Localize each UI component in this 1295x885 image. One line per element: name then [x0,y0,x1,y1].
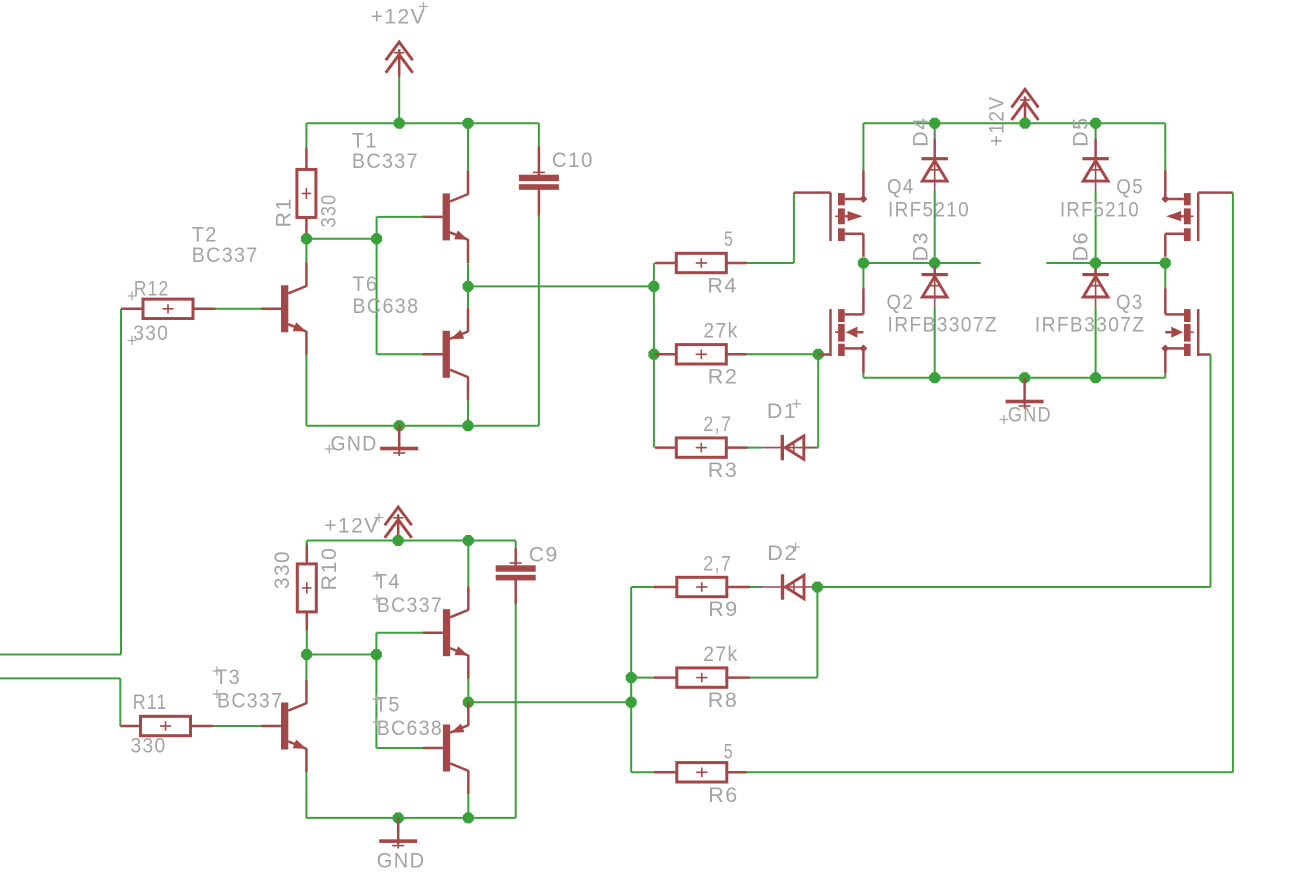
text origin cross [128,336,137,345]
wire D3 column bottom [934,308,936,378]
wire D4 column bottom [934,191,936,264]
pin R1 bottom [305,217,308,238]
transistor T5 [423,702,468,794]
wire T5 base [376,747,424,749]
text origin cross [373,595,382,604]
svg-text:R2: R2 [708,365,738,389]
pin R10 bottom [306,612,309,631]
diode D6 [1082,273,1108,307]
wire R6 left [631,771,654,773]
wire T2 collector green [305,239,307,263]
text origin cross [373,718,382,727]
transistor T1 [423,171,468,263]
wire D6 column bottom [1095,308,1097,378]
svg-text:BC638: BC638 [377,716,443,740]
wire right column top [1164,123,1166,171]
node base dot right [371,649,382,660]
supply +12V bottom [385,507,412,542]
svg-text:GND: GND [331,431,378,455]
mosfet Q4 [818,171,867,257]
wire R4 up to Q4 gate [793,193,795,263]
svg-text:Q4: Q4 [887,175,915,199]
node R2 dot [648,349,659,360]
wire T5 collector [467,794,469,818]
node bank input dot [626,697,637,708]
node mid-right dot [1160,258,1171,269]
wire input upper vertical [120,309,122,655]
node base dot left [301,233,312,244]
svg-text:+12V: +12V [984,96,1008,147]
resistor R3 [676,438,726,457]
wire Q5 gate down [1232,193,1234,773]
wire Q5 gate red [1211,191,1233,194]
node bottom dot gnd [394,420,405,431]
resistor R12 [143,299,193,318]
wire +12V stem [398,76,400,123]
diode D5 [1082,157,1108,191]
wire Q3 gate down [1210,355,1212,588]
pin C10 top [538,147,541,175]
svg-text:IRF5210: IRF5210 [888,197,970,221]
node base dot right [371,233,382,244]
wire D5 column bottom [1095,191,1097,264]
text origin cross [375,513,384,522]
node rail dot T4 [463,535,474,546]
node output dot [463,697,474,708]
wire D3 column top [934,263,936,267]
node rail dot T1 [463,118,474,129]
text origin cross [373,572,382,581]
svg-text:T6: T6 [352,272,378,296]
wire gate dot down to D1 [817,354,819,447]
wire input lower [0,677,120,679]
pin R8 left [654,676,677,679]
wire R4 right [747,262,794,264]
wire C10 column top [538,123,540,147]
svg-text:D1: D1 [767,399,797,423]
svg-text:R11: R11 [133,690,168,714]
capacitor C9 [496,558,536,580]
pin R4 left [655,262,676,265]
pin R4 right [726,262,747,265]
svg-text:C9: C9 [529,542,559,566]
node input dot [648,281,659,292]
svg-text:T4: T4 [375,570,401,594]
text origin cross [792,399,801,408]
transistor T3 [261,680,306,772]
wire D2 down to R8 [816,587,818,678]
wire T1 base [377,216,424,218]
pin D5 top [1094,139,1097,157]
ground GND top block [380,425,418,456]
wire Q3 source to bottom rail [1164,373,1166,378]
wire mid-right rail [1046,262,1165,264]
node R8 dot [626,672,637,683]
mosfet Q3 [1161,288,1210,373]
node top dot D4 [929,118,940,129]
pin R10 top [306,543,309,564]
wire R8 left [631,677,654,679]
pin D4 top [933,139,936,157]
wire T4 base [376,632,424,634]
node base dot left [301,649,312,660]
wire R10 to node [306,630,308,654]
pin R11 left [120,725,140,728]
wire T6 base [377,353,424,355]
node Q2 gate dot [813,349,824,360]
wire D1 to vertical [804,447,818,449]
svg-text:BC337: BC337 [217,689,283,713]
wire gate red Q4 [794,191,819,194]
node mid-right dot D6 [1090,258,1101,269]
svg-text:D2: D2 [767,541,797,565]
text origin cross [325,445,334,454]
resistor R11 [141,716,191,735]
mosfet Q2 [818,288,867,373]
text origin cross [419,2,428,11]
svg-text:2,7: 2,7 [703,412,732,436]
node bottom dot GND [1019,372,1030,383]
svg-text:BC638: BC638 [352,294,419,318]
wire left column upper [305,123,307,148]
wire Q3 drain [1164,263,1166,288]
diode D4 [922,157,948,191]
text origin cross [791,543,800,552]
node rail dot +12V [394,118,405,129]
node mid-left dot [858,258,869,269]
resistor R6 [677,763,727,782]
pin R12 right [193,308,216,311]
wire D4 column top [934,123,936,140]
pin C10 bottom [538,190,541,216]
wire T1 collector [467,123,469,171]
svg-text:IRFB3307Z: IRFB3307Z [888,313,999,337]
wire bridge top rail [863,122,1165,124]
diode D1 [763,435,818,460]
pin R9 right [727,586,750,589]
overlap dots D3 [934,265,936,272]
wire T6 emitter [467,286,469,308]
node bottom dot GND [393,812,404,823]
node rail dot +12V [393,535,404,546]
wire left column top [862,123,864,171]
pin R1 top [305,148,308,170]
pin C9 top [514,549,517,567]
wire R6 right [747,771,1233,773]
transistor T4 [423,587,468,679]
svg-text:R9: R9 [708,597,738,621]
wire R3 to D1 [748,447,762,449]
svg-text:R4: R4 [707,273,737,297]
wire R9 to D2 [750,586,763,588]
wire D6 column top [1095,263,1097,267]
overlap dots D1 [757,447,780,449]
wire base column [376,217,378,354]
svg-text:Q3: Q3 [1116,290,1144,314]
svg-text:R8: R8 [708,688,738,712]
pin R11 right [191,725,214,728]
wire Q2 drain [862,263,864,288]
wire C9 column bottom [515,605,517,818]
text origin cross [213,690,222,699]
wire bottom rail [306,817,515,819]
wire base column [375,633,377,748]
wire R11 to T3 [213,725,261,727]
node output dot [463,281,474,292]
svg-text:GND: GND [1008,403,1052,427]
pin R9 left [654,586,677,589]
svg-text:5: 5 [724,740,734,764]
svg-text:R12: R12 [134,277,170,301]
wire output to bank [468,701,631,703]
diode D2 [763,574,818,599]
node top dot +12V [1020,118,1031,129]
wire T4 collector [467,541,469,587]
resistor R10 [297,564,316,612]
node bottom dot T5 [463,812,474,823]
ground GND bottom block [379,817,417,848]
wire R10 top stub [306,541,308,546]
svg-text:5: 5 [724,227,734,251]
wire T3 emitter [305,772,307,818]
wire T6 collector [467,400,469,425]
pin R3 left [655,446,676,449]
wire output horizontal [468,285,654,287]
svg-text:+12V: +12V [371,5,427,29]
svg-text:2,7: 2,7 [703,551,732,575]
svg-text:T3: T3 [215,665,241,689]
pin R12 left [121,308,143,311]
svg-text:D6: D6 [1069,231,1093,261]
wire base link [306,238,376,240]
svg-text:R10: R10 [317,547,341,591]
ground GND bridge [1006,378,1044,409]
wire D2 to right column [817,586,1210,588]
wire mid-left rail [863,262,980,264]
wire +12V stem [1024,110,1026,123]
wire input upper [0,654,121,656]
wire C9 column top [515,541,517,550]
pin R6 right [727,771,747,774]
pin R6 left [654,771,677,774]
svg-text:+12V: +12V [324,514,380,538]
pin C9 bottom [514,580,517,605]
overlap dots D6 [1095,265,1097,272]
wire C10 column bottom [538,216,540,426]
overlap dots D5 [1095,129,1097,156]
svg-text:R1: R1 [272,197,296,227]
node D2 dot [812,582,823,593]
node bottom dot D3 [929,372,940,383]
wire R2 to Q2 gate [747,353,818,355]
svg-text:330: 330 [131,733,167,757]
wire bridge bottom rail [863,377,1165,379]
resistor R2 [676,345,726,364]
svg-text:D4: D4 [909,116,933,146]
wire bottom rail [306,425,539,427]
wire bank vertical [653,263,655,448]
node top dot D5 [1090,118,1101,129]
svg-text:D5: D5 [1069,116,1093,146]
text origin cross [373,695,382,704]
wire T2 emitter [305,355,307,426]
svg-text:BC337: BC337 [352,149,419,173]
pin R2 right [726,353,747,356]
capacitor C10 [519,168,559,190]
mosfet Q5 [1161,171,1210,257]
svg-text:BC337: BC337 [192,243,259,267]
pin R2 left [655,353,676,356]
svg-text:Q5: Q5 [1116,175,1144,199]
svg-text:GND: GND [377,848,426,872]
wire R8 right [750,677,817,679]
wire T1 emitter to output [467,263,469,286]
supply +12V bridge [1012,89,1039,124]
wire T4 emitter [467,679,469,702]
diode D3 [922,273,948,307]
transistor T2 [261,263,306,355]
svg-text:27k: 27k [703,642,738,666]
supply +12V top-left [386,42,413,77]
svg-text:BC337: BC337 [377,593,443,617]
svg-text:IRF5210: IRF5210 [1060,197,1140,221]
wire T3 collector [305,655,307,681]
svg-text:D3: D3 [909,231,933,261]
svg-text:330: 330 [133,321,169,345]
resistor R9 [677,577,727,596]
overlap dots D4 [934,129,936,156]
wire Q2 source to bottom rail [862,373,864,378]
overlap dots D2 [757,586,780,588]
pin D6 top [1094,266,1097,273]
transistor T6 [423,308,468,400]
wire bank vertical [630,587,632,772]
pin R3 right [726,446,748,449]
wire base link [307,654,377,656]
pin R8 right [727,676,750,679]
wire R12 to T2 [216,308,262,310]
resistor R1 [297,169,316,217]
node bottom dot D6 [1090,372,1101,383]
text origin cross [1000,415,1009,424]
wire top rail [307,540,516,542]
text origin cross [128,292,137,301]
svg-text:IRFB3307Z: IRFB3307Z [1035,313,1146,337]
svg-text:R6: R6 [708,783,738,807]
svg-text:R3: R3 [708,458,738,482]
resistor R8 [677,668,727,687]
svg-text:27k: 27k [703,319,738,343]
wire top rail [306,122,539,124]
svg-text:330: 330 [270,550,294,589]
svg-text:Q2: Q2 [887,290,915,314]
pin D3 top [933,266,936,273]
svg-text:C10: C10 [552,148,594,172]
node mid-left dot D3 [929,258,940,269]
text origin cross [213,667,222,676]
resistor R4 [676,253,726,272]
wire D5 column top [1095,123,1097,140]
node bottom dot T6 [463,420,474,431]
svg-text:330: 330 [317,194,341,228]
wire input lower vertical [119,678,121,726]
wire R9 left [631,586,654,588]
svg-text:T5: T5 [375,693,401,717]
